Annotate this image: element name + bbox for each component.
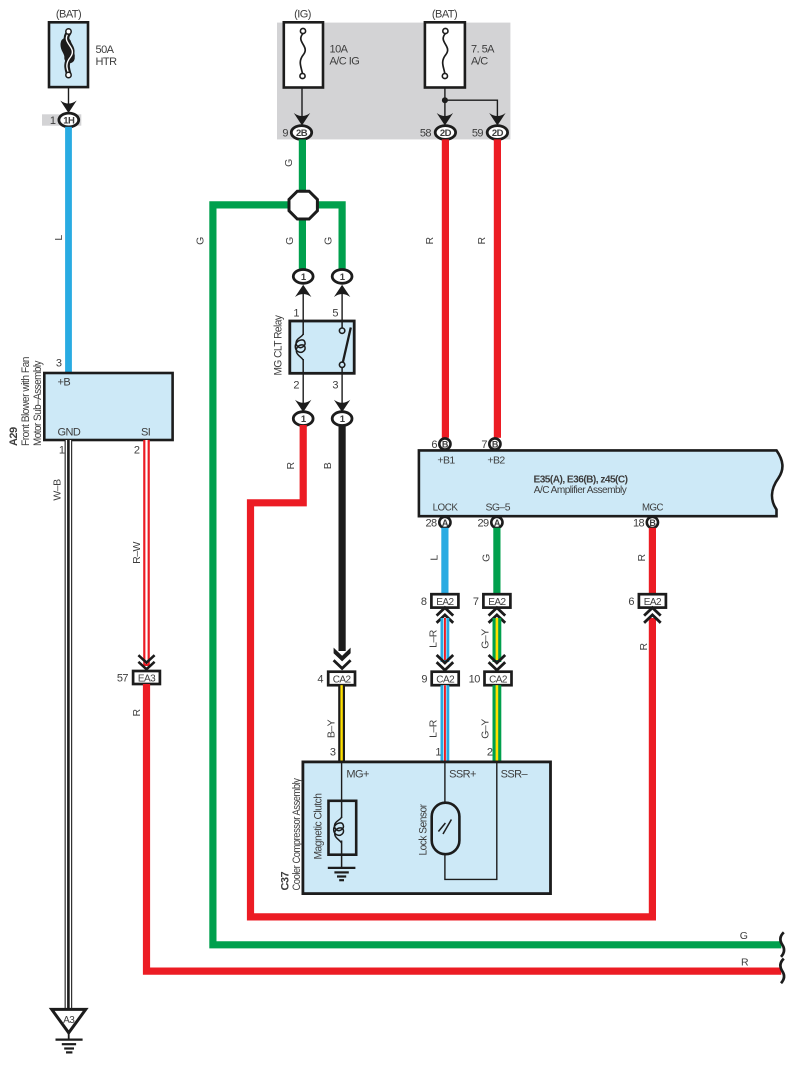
connector CA2 (10): [469, 672, 512, 686]
wire G long branch to bottom-right continuation: [195, 205, 782, 945]
svg-text:L–R: L–R: [428, 629, 440, 648]
wire junction to 2D (59): [445, 100, 498, 116]
svg-text:A/C IG: A/C IG: [330, 56, 360, 68]
wire relay pin 3 to connector: [341, 373, 343, 403]
connector 1 above relay pin 5: [332, 270, 352, 284]
svg-text:R: R: [638, 643, 650, 651]
svg-text:58: 58: [420, 128, 432, 140]
svg-text:W–B: W–B: [52, 479, 64, 501]
wire relay pin 2 to connector: [302, 373, 304, 403]
svg-text:A: A: [494, 518, 501, 528]
wire B relay pin 3 to CA2: [322, 425, 351, 661]
svg-text:(IG): (IG): [294, 9, 311, 21]
wire G-Y EA2 to CA2: [480, 618, 502, 662]
wire L-R EA2 to CA2: [428, 618, 450, 662]
arrow into 2D (59): [489, 113, 505, 126]
chevron out of EA2 (7): [489, 608, 506, 623]
connector 2B (9): [282, 126, 311, 140]
wire G junction to relay pin 1 connector: [299, 219, 306, 270]
connector CA2 (9): [421, 672, 458, 686]
wire R-W SI to EA3: [131, 440, 150, 666]
svg-text:18: 18: [633, 517, 645, 529]
svg-text:LOCK: LOCK: [433, 502, 458, 514]
wire R MGC to EA2: [649, 528, 656, 594]
svg-text:R: R: [285, 462, 297, 470]
svg-text:1: 1: [50, 115, 56, 127]
svg-text:R–W: R–W: [131, 542, 143, 564]
pin 29 (A) of amplifier: [477, 517, 502, 530]
chevron out of EA2 (8): [437, 608, 454, 623]
arrow into connector (pin3): [334, 400, 350, 412]
chevron into CA2 (9): [437, 655, 454, 670]
connector EA2 (7): [473, 594, 510, 608]
svg-text:29: 29: [477, 517, 489, 529]
pin 28 (A) of amplifier: [425, 517, 450, 530]
wire G-Y CA2 to compressor SSR-: [480, 685, 502, 762]
chevron out of EA2 (6): [644, 608, 661, 623]
svg-text:10: 10: [469, 674, 481, 686]
relay coil: [302, 321, 304, 335]
wire G junction to relay pin 5 connector: [317, 205, 343, 270]
svg-text:2: 2: [487, 747, 493, 759]
wire L-R CA2 to compressor SSR+: [428, 685, 450, 762]
junction octagon: [289, 191, 317, 219]
svg-text:2: 2: [134, 445, 140, 457]
svg-text:MG CLT Relay: MG CLT Relay: [273, 315, 285, 376]
gray strip behind connector 1H: [42, 114, 81, 125]
svg-text:A/C Amplifier Assembly: A/C Amplifier Assembly: [534, 484, 628, 496]
svg-text:9: 9: [421, 674, 427, 686]
svg-text:G: G: [740, 930, 748, 942]
compressor assembly C37: [280, 762, 551, 894]
svg-text:R: R: [476, 237, 488, 245]
svg-text:G–Y: G–Y: [480, 719, 492, 739]
wire R 2D(58) to amplifier +B1: [442, 139, 449, 437]
pin 7 (B) of amplifier: [481, 438, 500, 451]
wire R from EA3 to bottom-right continuation: [131, 684, 781, 971]
chevron into CA2 (4): [334, 660, 351, 668]
svg-text:L: L: [53, 235, 65, 241]
svg-text:G–Y: G–Y: [480, 629, 492, 649]
pin 18 (B) of amplifier: [633, 517, 658, 530]
svg-text:+B: +B: [58, 377, 71, 389]
svg-text:HTR: HTR: [96, 56, 118, 68]
svg-text:3: 3: [330, 747, 336, 759]
svg-text:+B1: +B1: [437, 455, 455, 467]
wire fuse 10A to connector 2B: [301, 87, 303, 116]
svg-text:B: B: [442, 440, 449, 450]
svg-text:Magnetic Clutch: Magnetic Clutch: [313, 793, 325, 859]
connector CA2 (4): [317, 672, 355, 686]
svg-text:G: G: [284, 237, 296, 245]
svg-text:G: G: [481, 554, 493, 562]
wire R 2D(59) to amplifier +B2: [494, 139, 501, 437]
svg-text:2B: 2B: [296, 128, 308, 139]
connector 1H: [50, 113, 79, 127]
wire W-B GND to ground A3: [52, 440, 73, 1009]
connector 1 above relay pin 1: [293, 270, 313, 284]
svg-text:Motor Sub–Assembly: Motor Sub–Assembly: [32, 360, 44, 446]
svg-text:1: 1: [435, 747, 441, 759]
svg-text:CA2: CA2: [436, 674, 455, 685]
magnetic clutch: [313, 793, 357, 859]
svg-text:MG+: MG+: [346, 769, 369, 781]
internal wire MG+ to clutch: [341, 762, 343, 801]
svg-text:R: R: [131, 709, 143, 717]
internal wire sensor loop to SSR-: [445, 762, 497, 880]
wire L (blue) 1H to A29 pin 3: [65, 127, 72, 373]
A/C amplifier assembly: [419, 450, 783, 516]
svg-text:EA2: EA2: [436, 597, 454, 608]
svg-text:C37: C37: [280, 872, 292, 891]
svg-text:2: 2: [293, 380, 299, 392]
svg-text:Cooler Compressor Assembly: Cooler Compressor Assembly: [291, 778, 303, 891]
fuse 10A A/C IG: [284, 9, 359, 88]
svg-text:L: L: [429, 555, 441, 561]
svg-text:SG–5: SG–5: [486, 502, 511, 514]
wire fuse 7.5A to junction dot: [444, 87, 446, 116]
wire G 2B to junction: [299, 139, 306, 191]
svg-text:SSR–: SSR–: [501, 769, 529, 781]
arrow into 1H: [60, 101, 76, 114]
svg-text:5: 5: [332, 308, 338, 320]
junction dot: [442, 97, 448, 103]
svg-text:Lock Sensor: Lock Sensor: [418, 804, 430, 856]
wire fuse 50A to connector 1H: [68, 87, 70, 104]
svg-text:CA2: CA2: [333, 674, 352, 685]
fuse 50A HTR (BAT): [49, 9, 117, 88]
svg-text:EA2: EA2: [488, 597, 506, 608]
svg-text:28: 28: [425, 517, 437, 529]
svg-text:(BAT): (BAT): [432, 9, 457, 21]
svg-text:1: 1: [59, 445, 65, 457]
connector 2D (58): [420, 126, 456, 140]
svg-text:SI: SI: [141, 427, 151, 439]
svg-text:1: 1: [293, 308, 299, 320]
svg-text:R: R: [741, 957, 749, 969]
svg-text:8: 8: [421, 596, 427, 608]
svg-text:3: 3: [56, 358, 62, 370]
chevron into EA3: [138, 655, 154, 669]
svg-text:59: 59: [472, 128, 484, 140]
wire B-Y CA2 to compressor MG+: [326, 685, 346, 762]
svg-text:B–Y: B–Y: [326, 719, 338, 738]
svg-text:A29: A29: [8, 427, 20, 446]
svg-text:57: 57: [117, 673, 129, 685]
arrow into 2D (58): [437, 113, 453, 126]
svg-text:SSR+: SSR+: [449, 769, 476, 781]
wire L LOCK to EA2: [441, 528, 448, 594]
svg-text:7: 7: [473, 596, 479, 608]
svg-text:1H: 1H: [63, 116, 75, 127]
internal wire SSR+ to lock sensor: [444, 762, 446, 803]
svg-text:3: 3: [332, 380, 338, 392]
svg-text:(BAT): (BAT): [56, 9, 81, 21]
svg-text:6: 6: [628, 596, 634, 608]
connector 2D (59): [472, 126, 508, 140]
arrow into 2B: [294, 113, 310, 126]
svg-text:G: G: [323, 237, 335, 245]
fuse 7.5A A/C (BAT): [425, 9, 495, 88]
svg-text:GND: GND: [58, 427, 81, 439]
svg-text:CA2: CA2: [489, 674, 508, 685]
svg-text:6: 6: [431, 439, 437, 451]
svg-text:MGC: MGC: [642, 502, 664, 514]
connector EA2 (6): [628, 594, 665, 608]
wire R relay pin 2 to amplifier MGC: [251, 425, 653, 917]
continuation brace G: [780, 932, 784, 957]
continuation brace R: [780, 959, 784, 984]
svg-text:4: 4: [317, 674, 323, 686]
svg-text:A/C: A/C: [471, 56, 488, 68]
arrow up into connector (pin1): [295, 285, 311, 297]
arrow into connector (pin2): [295, 400, 311, 412]
svg-text:7: 7: [481, 439, 487, 451]
svg-text:A3: A3: [63, 1015, 75, 1026]
arrow up into connector (pin5): [334, 285, 350, 297]
ground inside compressor: [328, 855, 356, 881]
svg-text:R: R: [636, 554, 648, 562]
connector EA3 (57): [117, 671, 160, 685]
connector 1 below relay pin 3: [332, 412, 352, 426]
svg-text:G: G: [195, 237, 207, 245]
svg-text:B: B: [649, 518, 656, 528]
svg-text:B: B: [322, 462, 334, 469]
svg-text:B: B: [492, 440, 499, 450]
svg-text:L–R: L–R: [428, 719, 440, 738]
svg-text:9: 9: [282, 128, 288, 140]
pin 6 (B) of amplifier: [431, 438, 450, 451]
gray fuse-block background: [277, 23, 510, 140]
chevron into CA2 (10): [489, 655, 506, 670]
ground A3: [52, 1009, 86, 1052]
svg-text:Front Blower with Fan: Front Blower with Fan: [20, 357, 32, 446]
svg-text:10A: 10A: [330, 44, 349, 56]
svg-text:G: G: [283, 159, 295, 167]
svg-text:EA3: EA3: [138, 673, 156, 684]
connector EA2 (8): [421, 594, 458, 608]
block A29 Front Blower with Fan Motor Sub-Assembly: [8, 357, 173, 446]
wire G SG-5 to EA2: [493, 528, 500, 594]
svg-text:A: A: [442, 518, 449, 528]
svg-text:2D: 2D: [440, 128, 452, 139]
svg-text:7. 5A: 7. 5A: [471, 44, 495, 56]
connector 1 below relay pin 2: [293, 412, 313, 426]
relay MG CLT: [273, 308, 355, 392]
svg-text:50A: 50A: [96, 44, 115, 56]
svg-text:R: R: [424, 237, 436, 245]
lock sensor: [418, 803, 460, 856]
svg-text:EA2: EA2: [644, 597, 662, 608]
svg-text:+B2: +B2: [487, 455, 505, 467]
relay switch: [341, 321, 343, 328]
svg-text:2D: 2D: [492, 128, 504, 139]
